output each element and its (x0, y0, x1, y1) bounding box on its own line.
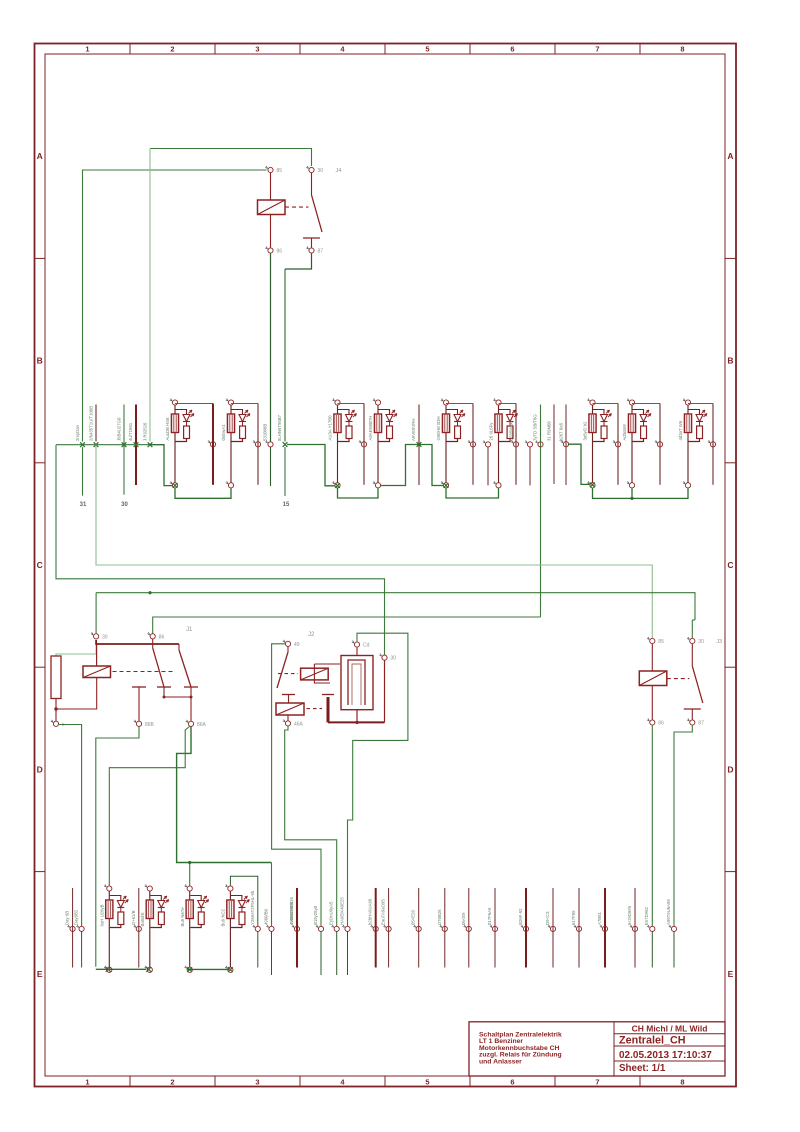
svg-text:87: 87 (318, 249, 324, 255)
companion of cluster4: elbow to pads row (230, 876, 257, 926)
wire labeled x96 upper (95, 405, 97, 442)
svg-text:2: 2 (170, 1078, 174, 1087)
svg-text:86: 86 (658, 721, 664, 727)
J2 heavy contact bar (327, 697, 330, 722)
wire: Cd up over box and down to bottom (348, 633, 408, 926)
svg-text:8: 8 (680, 1078, 684, 1087)
lamp module bottom indicator cluster x=189.7 (187, 886, 192, 891)
title row line 3 (614, 1060, 725, 1062)
wire net31: J4 pin85 to left bus drop (83, 170, 267, 442)
wire x554 (553, 405, 555, 485)
svg-text:D: D (727, 764, 733, 774)
svg-text:5LHN9T96B7: 5LHN9T96B7 (277, 414, 282, 441)
bottom wire stub x=388.6 (388, 888, 390, 968)
bottom wire stub x=444.8 (444, 888, 446, 968)
J2 dashes coil2-bar (307, 708, 323, 710)
svg-text:A7B51: A7B51 (597, 911, 602, 925)
svg-text:4960/B0: 4960/B0 (264, 908, 269, 925)
svg-text:D9<C3: D9<C3 (545, 911, 550, 925)
svg-text:HA9EIK40E25: HA9EIK40E25 (340, 897, 345, 925)
lamp module indicator cluster x=175 (172, 400, 177, 405)
bottom wire stub x=72.6 (72, 888, 74, 968)
connector stub line near cluster x=175 (175, 403, 213, 405)
connector stub line near cluster x=337.5 (338, 403, 365, 405)
svg-text:1: 1 (85, 1078, 89, 1087)
lamp module indicator cluster x=632 (629, 400, 634, 405)
svg-text:31: 31 (80, 502, 87, 508)
svg-text:0nEwA1: 0nEwA1 (221, 424, 226, 441)
lamp module indicator cluster x=337.5 (335, 400, 340, 405)
title block outline (469, 1022, 725, 1076)
svg-text:017F5A9: 017F5A9 (487, 907, 492, 925)
serpentine mid: net15 to clusters 3-6 (283, 442, 288, 447)
bottom wire stub x=553 (552, 888, 554, 968)
lamp module indicator cluster x=498.5 (496, 400, 501, 405)
svg-text:5: 5 (425, 1078, 429, 1087)
svg-text:86: 86 (277, 249, 283, 255)
wire: J4 pin30 up and left (150, 149, 312, 167)
svg-text:3: 3 (255, 45, 259, 54)
bottom wire stub x=526 (525, 888, 527, 968)
svg-text:86A: 86A (197, 722, 207, 728)
title row line 2 (614, 1045, 725, 1047)
J1 pad 31b (53, 721, 58, 726)
wire: bus elbow to J2 pin30 (56, 445, 385, 655)
svg-text:531088B: 531088B (263, 424, 268, 441)
title block divider (613, 1023, 615, 1077)
svg-text:Y269AT2F5HL-9b: Y269AT2F5HL-9b (250, 890, 255, 925)
junction net31 x82 (80, 442, 85, 447)
svg-text:7: 7 (595, 1078, 599, 1087)
svg-text:30: 30 (102, 634, 108, 640)
svg-text:J3: J3 (716, 639, 722, 645)
J2 dashes blade-coil1 (278, 673, 298, 675)
svg-text:2: 2 (170, 45, 174, 54)
bottom wire stub x=297 (296, 888, 298, 968)
svg-text:TyTD SB/T8G: TyTD SB/T8G (533, 414, 538, 441)
wire x419 labeled (418, 405, 420, 486)
wire: cluster1 top to J1 area (109, 727, 189, 886)
svg-text:Day9B2: Day9B2 (74, 909, 79, 925)
svg-text:06<E9: 06<E9 (461, 912, 466, 925)
junction dot resistor bottom (54, 707, 57, 710)
J2 thick bottom wire (328, 721, 385, 723)
svg-text:85: 85 (658, 639, 664, 645)
svg-text:C: C (727, 560, 733, 570)
svg-text:85: 85 (277, 168, 283, 174)
svg-text:B19y25y0: B19y25y0 (313, 905, 318, 925)
wire labeled x124 (123, 405, 125, 495)
connector stub line near cluster x=688 (688, 403, 713, 405)
svg-text:A99T9U6A95: A99T9U6A95 (666, 899, 671, 925)
svg-text:J2: J2 (308, 632, 315, 638)
bottom wire stub x=375.7 (375, 888, 377, 968)
wire x566 (565, 405, 567, 486)
bottom wire stub x=418.7 (418, 888, 420, 968)
svg-text:A: A (727, 151, 733, 161)
relay J3 (right relay) (650, 638, 655, 643)
svg-text:Bu9 Ne7e: Bu9 Ne7e (180, 907, 185, 927)
svg-text:617F59: 617F59 (571, 910, 576, 925)
wire: 86A down to bold bus (177, 727, 272, 863)
serpentine right: x566 to clusters 7-9 (568, 444, 590, 484)
net 15 stub below bus (284, 447, 286, 496)
wire: 31b down to bottom pad (58, 725, 82, 927)
relay J4 (top relay) (268, 167, 273, 172)
svg-text:G9EHE B3H: G9EHE B3H (436, 416, 441, 440)
svg-text:30: 30 (698, 639, 704, 645)
svg-text:86: 86 (159, 634, 165, 640)
wire: J3 pin87 down (674, 725, 692, 926)
svg-text:En7D#62: En7D#62 (644, 906, 649, 925)
thin wire x530 (529, 447, 531, 485)
svg-text:6<r9D9#6: 6<r9D9#6 (627, 905, 632, 925)
svg-text:Bu9 NC2: Bu9 NC2 (221, 908, 226, 926)
svg-text:7: 7 (595, 45, 599, 54)
wire: J1 pin86 up to x540 link (153, 617, 541, 634)
drawing frame inner border (45, 54, 725, 1076)
J2 blade contact (287, 647, 289, 653)
thin wire x488 (487, 447, 489, 485)
svg-text:Zentralel_CH: Zentralel_CH (619, 1035, 686, 1047)
lamp module indicator cluster x=378 (375, 400, 380, 405)
svg-text:Cd: Cd (363, 643, 370, 649)
J2 coil 2 (276, 703, 304, 715)
junction dot x632 bottom loop (630, 497, 633, 500)
wire: 86B down to bottom bus (96, 727, 139, 967)
wire net15: down to mid band (284, 269, 286, 442)
mid-band pads row (94, 442, 99, 447)
svg-text:5: 5 (425, 45, 429, 54)
frame column/row tick marks (129, 44, 131, 55)
svg-text:J R92526: J R92526 (143, 422, 148, 441)
svg-text:15: 15 (283, 502, 290, 508)
resistor R1 (J1 coil series) (51, 656, 61, 699)
svg-text:Ad3o5W: Ad3o5W (622, 423, 627, 440)
svg-text:Day 9B: Day 9B (65, 911, 70, 925)
svg-text:C: C (37, 560, 43, 570)
svg-text:26 9L6Fy: 26 9L6Fy (488, 422, 493, 441)
svg-text:E: E (728, 969, 734, 979)
wire pale: bus to J3 pin85 (96, 445, 652, 638)
svg-text:49B6D9B26: 49B6D9B26 (289, 901, 294, 925)
wire net30 horizontal to J3 pin30 (96, 593, 695, 620)
svg-text:2/6435T1U/T106B: 2/6435T1U/T106B (89, 406, 94, 441)
J2 coil 1 (301, 668, 329, 680)
wire pale: x150 down to bus (149, 149, 151, 442)
svg-text:2myDan: 2myDan (75, 424, 80, 441)
svg-text:Sheet: 1/1: Sheet: 1/1 (619, 1063, 666, 1074)
title row line 1 (614, 1033, 725, 1035)
drop to cluster3 top (189, 863, 191, 886)
svg-text:86B: 86B (145, 722, 155, 728)
x270 below pad (270, 447, 272, 486)
lamp module bottom indicator cluster x=109.3 (107, 886, 112, 891)
J1 coil (83, 666, 111, 678)
J2 lock inner U2 (352, 664, 361, 705)
connector stub line near cluster x=592.5 (593, 403, 619, 405)
svg-text:A9AEN9B7H: A9AEN9B7H (368, 416, 373, 441)
horizontal bus net31 y444.7 (56, 444, 150, 446)
svg-text:C265WG0: C265WG0 (509, 420, 514, 441)
bottom wire stub x=635 (634, 888, 636, 968)
svg-text:AU3A Y17B0: AU3A Y17B0 (327, 415, 332, 441)
wire: J4 pin86 down to mid-band pad (270, 254, 272, 442)
wire: J1 pin30 down to resistor top (56, 639, 96, 656)
net 31 stub below bus (82, 447, 84, 496)
svg-text:B: B (727, 356, 733, 366)
svg-text:05<E26: 05<E26 (411, 909, 416, 925)
lamp module bottom indicator cluster x=230.4 (228, 886, 233, 891)
wire: J4 pin87 elbow (285, 254, 312, 270)
svg-text:3: 3 (255, 1078, 259, 1087)
svg-text:D+61/B: D+61/B (131, 910, 136, 925)
svg-text:b26HA9UA96: b26HA9UA96 (368, 898, 373, 925)
wire: J3 pin86 down (651, 725, 653, 926)
serpentine left: bus to cluster1/2 bottoms (150, 445, 172, 486)
svg-text:D: D (37, 764, 43, 774)
stub cluster8 bottom to loop (631, 488, 633, 498)
svg-text:A9VE9VRH: A9VE9VRH (411, 419, 416, 441)
svg-text:3o5y/2 b2: 3o5y/2 b2 (582, 421, 587, 440)
svg-text:A: A (37, 151, 43, 161)
svg-text:J1: J1 (186, 627, 193, 633)
junction x150 (148, 442, 153, 447)
svg-text:E: E (37, 969, 43, 979)
svg-text:4d3oT W6: 4d3oT W6 (678, 420, 683, 440)
lamp module bottom indicator cluster x=149.8 (147, 886, 152, 891)
svg-text:1: 1 (85, 45, 89, 54)
drop to pads row x271 (271, 863, 273, 927)
stub Cd to box (356, 647, 358, 655)
svg-text:30: 30 (318, 168, 324, 174)
J1 dashed actuation line (113, 671, 175, 673)
bottom wire stub x=468.8 (468, 888, 470, 968)
svg-text:J4: J4 (336, 168, 342, 174)
wire net30 through J1 pin30 pad (95, 593, 97, 634)
J2 pin30 down (384, 660, 386, 722)
svg-text:6: 6 (510, 1078, 514, 1087)
lamp module indicator cluster x=446 (443, 400, 448, 405)
bottom wire stub x=495 (494, 888, 496, 968)
svg-text:b26T 0a5: b26T 0a5 (559, 422, 564, 441)
svg-text:31 R9M06: 31 R9M06 (547, 421, 552, 441)
lamp module indicator cluster x=231 (228, 400, 233, 405)
svg-text:87: 87 (698, 721, 704, 727)
J1 fixed contacts (132, 686, 146, 688)
J1 contact blades (152, 639, 154, 648)
bottom wire stub x=605 (604, 888, 606, 968)
connector stub line near cluster x=446 (446, 403, 473, 405)
J1 pad 86A (188, 721, 193, 726)
svg-text:02.05.2013 17:10:37: 02.05.2013 17:10:37 (619, 1050, 712, 1061)
stub pin30 wire to coil top (96, 644, 98, 666)
svg-text:4u/T1961: 4u/T1961 (128, 422, 133, 441)
J2 lock body box (341, 656, 373, 710)
bottom green bus clusters 1-2 (96, 968, 146, 970)
thick wire: J1 pin30 to contacts (96, 640, 179, 644)
J2 lock inner U (348, 660, 365, 705)
lamp module indicator cluster x=688 (685, 400, 690, 405)
bottom wire stub x=138.8 (138, 888, 140, 968)
svg-text:CH Michl / ML Wild: CH Michl / ML Wild (632, 1023, 708, 1033)
J2 top link wire (314, 663, 340, 665)
svg-text:J9B4U27G0: J9B4U27G0 (117, 417, 122, 441)
stub box bottom (356, 710, 358, 723)
junction dot x150 net30 (148, 591, 151, 594)
wire: 46A down staircase (285, 726, 337, 926)
connector stub line near cluster x=632 (632, 403, 660, 405)
svg-text:9uH U26yB: 9uH U26yB (100, 904, 105, 926)
J1 pad 86B (136, 721, 141, 726)
long green wire x540 down to J1-86 link (540, 405, 542, 618)
svg-text:46A: 46A (294, 721, 304, 727)
wire: pin49 left and down staircase (272, 644, 321, 926)
svg-text:EauTA9aO95: EauTA9aO95 (381, 899, 386, 925)
bottom wire stub x=579 (578, 888, 580, 968)
bottom cluster3-4 green bus (187, 968, 229, 970)
svg-text:30: 30 (121, 502, 128, 508)
svg-text:B: B (37, 356, 43, 366)
wire: resistor bottom to coil bottom (56, 678, 97, 710)
connector stub line near cluster x=231 (231, 403, 258, 405)
svg-text:Ba9dr0: Ba9dr0 (140, 912, 145, 926)
svg-text:D76B26: D76B26 (437, 909, 442, 925)
svg-text:30: 30 (391, 656, 397, 662)
svg-text:und Anlasser: und Anlasser (479, 1058, 522, 1065)
J2 left link wire (314, 664, 330, 683)
thick wire x136 (135, 405, 137, 486)
svg-text:EyDnU0yA5: EyDnU0yA5 (329, 901, 334, 925)
svg-text:49: 49 (294, 642, 300, 648)
connector stub line near cluster x=498.5 (499, 403, 517, 405)
junction x419 (417, 442, 422, 447)
svg-text:6: 6 (510, 45, 514, 54)
lamp module indicator cluster x=592.5 (590, 400, 595, 405)
svg-text:8: 8 (680, 45, 684, 54)
svg-text:B26F-92: B26F-92 (518, 908, 523, 925)
svg-text:AuxDB HS6: AuxDB HS6 (165, 417, 170, 441)
